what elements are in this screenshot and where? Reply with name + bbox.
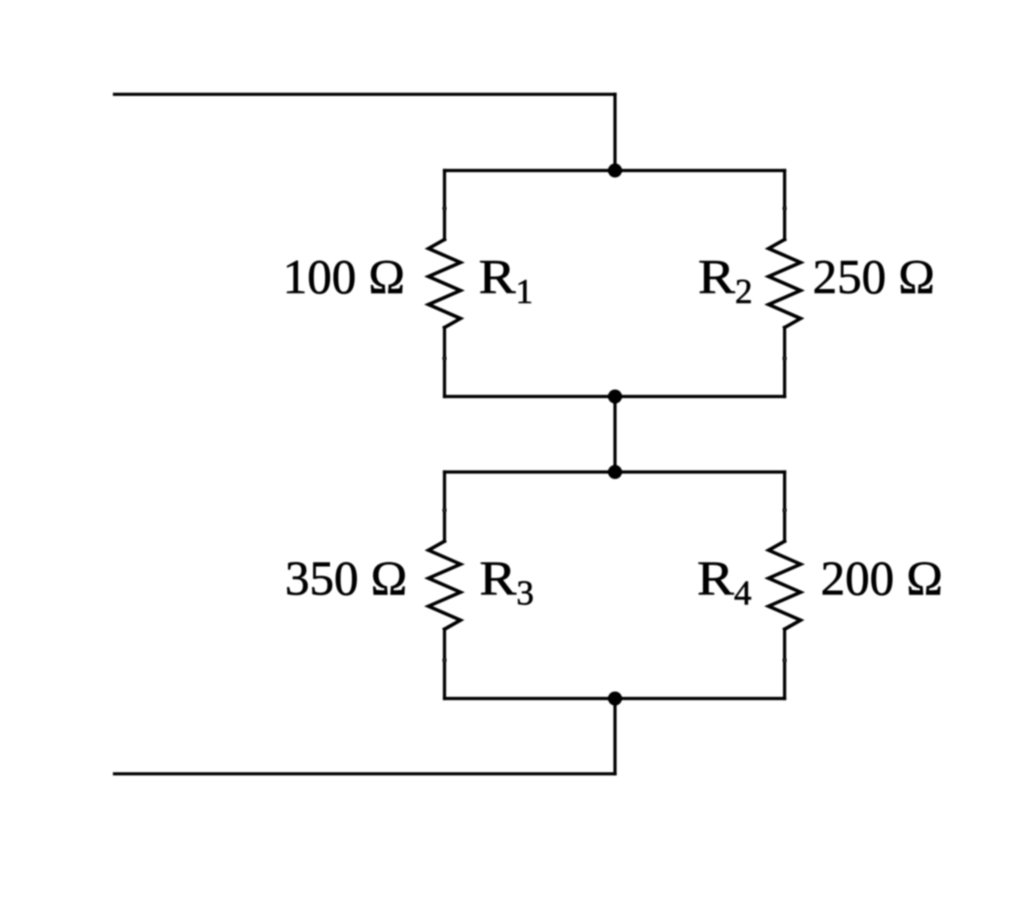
svg-text:200 Ω: 200 Ω [821,551,943,606]
resistor R4 [769,541,801,629]
svg-text:R1: R1 [479,249,533,311]
wire middle link [613,397,616,473]
pin tick R2 bottom [783,357,787,361]
pin tick R4 bottom [783,658,787,662]
pin tick R3 top [443,508,447,512]
node junction section2 top [608,465,622,479]
wire top vertical drop [613,94,616,170]
svg-text:250 Ω: 250 Ω [813,249,935,304]
wire R4 bottom lead [783,629,786,698]
wire bottom vertical tail [613,699,616,774]
pin tick R3 bottom [443,658,447,662]
pin tick R1 top [443,207,447,211]
svg-text:100 Ω: 100 Ω [283,249,405,304]
pin tick R2 top [783,207,787,211]
wire R3 bottom lead [443,629,446,698]
pin tick R1 bottom [443,357,447,361]
wire R2 bottom lead [783,328,786,397]
wire R4 top lead [783,472,786,541]
svg-text:350 Ω: 350 Ω [285,551,407,606]
resistor R2 [769,240,801,328]
wire R1 top lead [443,171,446,240]
svg-text:R3: R3 [479,551,534,613]
wire R3 top lead [443,472,446,541]
wire section2 top rail [445,470,785,473]
node junction section2 bottom [608,692,622,706]
wire R1 bottom lead [443,328,446,397]
node junction section1 bottom [608,390,622,404]
wire section2 bottom rail [445,697,785,700]
node junction top [608,164,622,178]
wire top horizontal feed [115,93,616,96]
svg-text:R2: R2 [698,249,753,311]
resistor R1 [429,240,461,328]
wire R2 top lead [783,171,786,240]
pin tick R4 top [783,508,787,512]
svg-text:R4: R4 [697,551,752,613]
resistor R3 [429,541,461,629]
wire section1 top rail [445,169,785,172]
wire bottom horizontal return [115,772,616,775]
wire section1 bottom rail [445,395,785,398]
